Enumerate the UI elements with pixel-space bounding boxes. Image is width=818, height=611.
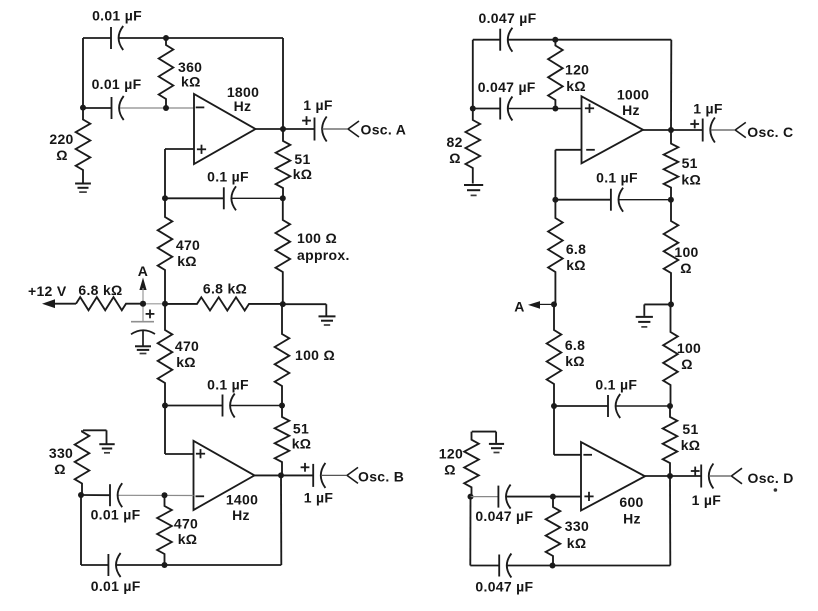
resistor 6.8 kOhm (left) <box>76 297 143 310</box>
wire noninv input A <box>165 148 194 150</box>
resistor 120 kOhm <box>548 40 563 109</box>
wire left rail A <box>82 38 84 108</box>
svg-text:0.01 µF: 0.01 µF <box>91 507 141 523</box>
arrow +12 V <box>42 299 55 308</box>
node 0.1uF right C <box>668 197 674 203</box>
svg-text:0.047 µF: 0.047 µF <box>475 579 533 595</box>
svg-text:330: 330 <box>49 445 73 461</box>
svg-text:Ω: Ω <box>444 462 456 478</box>
capacitor 0.1 uF (D) <box>607 395 609 417</box>
wire output C to cap <box>671 129 703 131</box>
resistor 51 kOhm (D) <box>663 406 678 476</box>
svg-text:6.8 kΩ: 6.8 kΩ <box>203 281 247 297</box>
wire right rail B <box>280 475 282 565</box>
svg-text:0.047 µF: 0.047 µF <box>479 10 537 26</box>
svg-text:470: 470 <box>174 516 198 532</box>
resistor 6.8 kOhm (D upper) <box>547 304 562 406</box>
wire left rail B <box>80 495 82 565</box>
svg-text:Osc. A: Osc. A <box>361 122 407 138</box>
capacitor 0.01 uF (top feedback A) <box>110 27 112 49</box>
svg-text:1000: 1000 <box>617 87 649 103</box>
ground (mid right half) <box>636 316 653 318</box>
op-amp U1 minus sign <box>196 106 205 108</box>
wire to mid ground (right half) <box>644 303 671 305</box>
capacitor 1 uF (output C) <box>702 119 704 142</box>
node output D <box>667 473 673 479</box>
svg-text:1 µF: 1 µF <box>693 100 723 116</box>
svg-text:0.1 µF: 0.1 µF <box>596 170 638 186</box>
wire 0.1uF row A <box>165 197 224 199</box>
wire cap to terminal A <box>322 128 348 130</box>
svg-text:330: 330 <box>565 518 589 534</box>
node junction top A <box>163 35 169 41</box>
wire output C <box>643 129 671 131</box>
node 0.1uF left D <box>551 403 557 409</box>
capacitor 0.047 uF (input C) <box>499 98 501 120</box>
svg-text:470: 470 <box>176 237 200 253</box>
op-amp U2 minus sign <box>196 495 205 497</box>
wire output A to cap <box>283 128 315 130</box>
svg-text:0.1 µF: 0.1 µF <box>595 377 637 393</box>
svg-text:kΩ: kΩ <box>565 353 585 369</box>
resistor 220 Ohm <box>76 108 91 183</box>
resistor 100 Ohm (C) <box>664 200 679 305</box>
resistor 51 kOhm (C) <box>664 130 679 200</box>
svg-text:kΩ: kΩ <box>566 78 586 94</box>
node mid right rail <box>280 301 286 307</box>
svg-text:0.047 µF: 0.047 µF <box>475 508 533 524</box>
wire node A to mid rail <box>143 303 165 305</box>
node mid input C <box>552 106 558 112</box>
resistor 6.8 kOhm (C upper) <box>548 200 563 305</box>
wire output B to cap <box>281 474 313 476</box>
svg-text:Ω: Ω <box>681 356 693 372</box>
label plus (output cap B) <box>301 466 310 468</box>
ground (220 Ohm) <box>75 183 91 185</box>
capacitor 1 uF (output D) <box>700 465 702 488</box>
resistor 360 kOhm <box>159 38 174 108</box>
svg-text:0.01 µF: 0.01 µF <box>92 8 142 24</box>
svg-text:kΩ: kΩ <box>292 436 312 452</box>
wire 0.1uF row B <box>165 405 223 407</box>
wire right rail D <box>669 476 671 566</box>
node A junction dot overdraw <box>140 301 146 307</box>
svg-text:Hz: Hz <box>234 98 252 114</box>
wire top feedback (Osc. C) <box>473 39 500 41</box>
node bottom D <box>550 563 556 569</box>
svg-text:kΩ: kΩ <box>177 253 197 269</box>
wire left rail C <box>472 40 474 109</box>
wire inv input row B <box>81 494 110 496</box>
node 0.1uF left A <box>162 195 168 201</box>
capacitor 0.047 uF (bottom D) <box>498 555 500 577</box>
node 0.1uF right D <box>667 403 673 409</box>
resistor 100 Ohm (B) <box>275 304 290 405</box>
svg-text:+12 V: +12 V <box>28 283 67 299</box>
wire top feedback (Osc. A) <box>83 37 111 39</box>
svg-text:51: 51 <box>293 421 309 437</box>
node output B <box>278 472 284 478</box>
wire output B <box>255 474 282 476</box>
svg-text:6.8 kΩ: 6.8 kΩ <box>78 282 122 298</box>
svg-text:A: A <box>514 299 524 315</box>
capacitor 1 uF (output B) <box>312 464 314 487</box>
node left input A <box>80 105 86 111</box>
wire left rail D <box>469 497 471 566</box>
terminal Osc. C <box>735 122 746 130</box>
wire inv input C <box>555 149 581 151</box>
svg-text:Ω: Ω <box>449 150 461 166</box>
resistor 51 kOhm (B) <box>275 406 290 476</box>
ground (node A cap) <box>135 345 151 347</box>
svg-text:Osc. D: Osc. D <box>748 470 794 486</box>
wire bottom B <box>81 564 108 566</box>
node noninv input D left <box>468 494 474 500</box>
capacitor 0.1 uF (C) <box>610 189 612 211</box>
capacitor 0.047 uF (input D) <box>497 486 499 508</box>
wire output D <box>645 475 670 477</box>
svg-text:Hz: Hz <box>623 510 641 526</box>
svg-text:100: 100 <box>674 244 698 260</box>
svg-text:kΩ: kΩ <box>567 535 587 551</box>
node A junction <box>140 301 146 307</box>
node junction top C <box>552 37 558 43</box>
svg-text:51: 51 <box>682 155 698 171</box>
terminal Osc. A <box>348 121 359 129</box>
op-amp U3 (1000 Hz) <box>582 96 644 163</box>
period speck near Osc. D <box>774 488 778 492</box>
svg-text:1 µF: 1 µF <box>304 490 334 506</box>
resistor 100 Ohm (D) <box>663 304 678 406</box>
svg-text:Ω: Ω <box>54 461 66 477</box>
svg-text:1 µF: 1 µF <box>303 97 333 113</box>
capacitor 0.01 uF (input B) <box>109 484 111 506</box>
resistor 100 Ohm approx <box>276 198 291 304</box>
resistor 330 Ohm <box>75 430 90 495</box>
svg-text:kΩ: kΩ <box>566 257 586 273</box>
capacitor 0.1 uF (B) <box>222 395 224 417</box>
resistor 51 kOhm (A) <box>276 129 291 198</box>
terminal Osc. D <box>731 468 742 476</box>
ground (120 Ohm) <box>472 431 496 433</box>
capacitor 0.047 uF (top C) <box>499 29 501 51</box>
svg-text:100 Ω: 100 Ω <box>297 230 337 246</box>
op-amp U2 plus sign <box>196 453 205 455</box>
wire noninv input B <box>164 406 166 455</box>
ground (330 Ohm) <box>83 429 107 431</box>
node A junction right <box>551 301 557 307</box>
node output C <box>668 127 674 133</box>
node 0.1uF left B <box>162 403 168 409</box>
svg-text:Ω: Ω <box>680 260 692 276</box>
node 0.1uF left C <box>552 197 558 203</box>
svg-text:kΩ: kΩ <box>181 74 201 90</box>
svg-text:Hz: Hz <box>622 102 640 118</box>
op-amp U4 (600 Hz) <box>581 442 645 511</box>
label plus (output cap A) <box>302 120 311 122</box>
resistor 330 kOhm (D) <box>546 497 561 566</box>
svg-text:120: 120 <box>439 445 463 461</box>
node inv input B left <box>78 492 84 498</box>
svg-text:approx.: approx. <box>297 247 350 263</box>
wire noninv input C <box>473 108 500 110</box>
arrow node A left <box>528 301 540 309</box>
node mid rail center <box>162 301 168 307</box>
svg-text:0.01 µF: 0.01 µF <box>91 578 141 594</box>
op-amp U4 minus sign <box>583 454 592 456</box>
svg-text:kΩ: kΩ <box>681 172 701 188</box>
label plus (output cap C) <box>690 123 699 125</box>
op-amp U1 plus sign <box>197 148 206 150</box>
svg-text:82: 82 <box>447 134 463 150</box>
svg-text:kΩ: kΩ <box>176 354 196 370</box>
wire bottom D <box>470 565 499 567</box>
svg-text:Osc. B: Osc. B <box>358 469 404 485</box>
svg-text:100 Ω: 100 Ω <box>295 347 335 363</box>
svg-text:0.01 µF: 0.01 µF <box>92 76 142 92</box>
capacitor 0.01 uF (input A) <box>111 97 113 119</box>
node left input C <box>470 106 476 112</box>
electrolytic cap at node A <box>142 304 144 322</box>
svg-text:kΩ: kΩ <box>293 166 313 182</box>
node mid right rail C <box>668 301 674 307</box>
wire to mid ground (left half) <box>283 303 327 305</box>
wire inverting input A <box>83 107 112 109</box>
svg-text:6.8: 6.8 <box>565 337 585 353</box>
svg-text:1400: 1400 <box>226 492 258 508</box>
ground (mid left half) <box>319 315 336 317</box>
wire cap to terminal D <box>709 475 732 477</box>
resistor 470 kOhm (A) <box>158 198 173 304</box>
node noninv input D mid <box>550 494 556 500</box>
terminal Osc. B <box>347 467 358 475</box>
resistor 470 kOhm (B upper) <box>158 304 173 406</box>
node output A <box>280 126 286 132</box>
node 0.1uF right B <box>279 403 285 409</box>
wire output D to cap <box>670 475 701 477</box>
resistor 470 kOhm (B lower) <box>157 495 172 565</box>
resistor 6.8 kOhm (mid) <box>165 297 283 310</box>
svg-text:0.1 µF: 0.1 µF <box>207 168 249 184</box>
node bottom B <box>162 562 168 568</box>
svg-text:Ω: Ω <box>56 147 68 163</box>
svg-text:0.1 µF: 0.1 µF <box>207 376 249 392</box>
wire cap to terminal C <box>710 129 735 131</box>
svg-text:6.8: 6.8 <box>566 241 586 257</box>
op-amp U4 plus sign <box>584 495 593 497</box>
node inv input B mid <box>162 492 168 498</box>
svg-text:100: 100 <box>677 340 701 356</box>
op-amp U2 (1400 Hz) <box>194 441 255 510</box>
capacitor 0.01 uF (bottom B) <box>107 554 109 576</box>
arrow node A up <box>139 278 146 291</box>
wire 0.1uF row D <box>554 405 608 407</box>
op-amp U1 (1800 Hz) <box>194 94 256 164</box>
op-amp U3 plus sign <box>585 107 594 109</box>
resistor 82 Ohm <box>466 109 481 184</box>
ground (82 Ohm) <box>464 184 483 186</box>
svg-text:220: 220 <box>49 131 73 147</box>
wire cap to terminal B <box>321 474 347 476</box>
svg-text:Hz: Hz <box>232 507 250 523</box>
wire 0.1uF row C <box>555 199 611 201</box>
resistor 120 Ohm <box>464 432 479 497</box>
svg-text:Osc. C: Osc. C <box>747 124 793 140</box>
electrolytic cap at node A plus <box>146 313 155 315</box>
svg-text:51: 51 <box>294 151 310 167</box>
svg-text:120: 120 <box>565 62 589 78</box>
svg-text:A: A <box>138 263 148 279</box>
node 0.1uF right A <box>280 195 286 201</box>
svg-text:600: 600 <box>619 494 643 510</box>
svg-text:470: 470 <box>175 338 199 354</box>
wire output A <box>256 128 284 130</box>
label plus (output cap D) <box>691 470 700 472</box>
wire right rail top C <box>670 40 672 130</box>
wire right rail top A <box>282 38 284 129</box>
svg-text:51: 51 <box>682 421 698 437</box>
op-amp U3 minus sign <box>586 149 595 151</box>
capacitor 0.1 uF (A) <box>223 187 225 209</box>
wire noninv input row D <box>471 496 499 498</box>
svg-text:1 µF: 1 µF <box>692 492 722 508</box>
capacitor 1 uF (output A) <box>314 118 316 141</box>
wire inv input D <box>553 406 555 455</box>
svg-text:kΩ: kΩ <box>178 531 198 547</box>
svg-text:kΩ: kΩ <box>681 437 701 453</box>
svg-text:0.047 µF: 0.047 µF <box>478 79 536 95</box>
node mid input A <box>163 105 169 111</box>
